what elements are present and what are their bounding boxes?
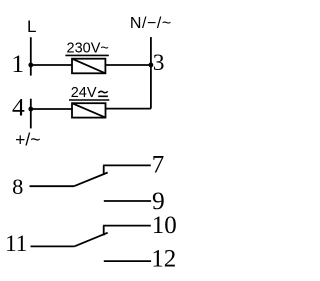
- coil U1 230V~ box: [72, 59, 105, 74]
- coil U2 24V AC/DC bar: [98, 95, 108, 97]
- svg-text:9: 9: [152, 186, 165, 215]
- coil U2 24V diagonal: [72, 103, 106, 117]
- svg-text:1: 1: [11, 49, 24, 78]
- wire terminal 4 stub: [30, 99, 32, 129]
- junction terminal 4: [28, 107, 33, 112]
- wire N vertical to coil 24V: [105, 108, 150, 110]
- relay contact arm 11: [74, 233, 107, 247]
- wire N vertical: [150, 37, 152, 109]
- wire terminal 9: [104, 200, 151, 202]
- svg-text:230V~: 230V~: [67, 41, 109, 57]
- wire terminal 7: [103, 164, 151, 166]
- coil U2 24V box: [72, 103, 106, 117]
- svg-text:7: 7: [152, 152, 165, 179]
- wire coil 24V to terminal 4: [31, 108, 72, 110]
- coil U1 230V~ diagonal: [72, 59, 105, 74]
- wire coil 230V to terminal 3: [105, 64, 150, 66]
- wire terminal 10: [103, 225, 151, 227]
- contact 10 tick: [103, 226, 105, 236]
- svg-text:4: 4: [12, 93, 25, 122]
- wire terminal 8 common: [30, 185, 75, 187]
- junction terminal 3: [149, 63, 154, 68]
- contact 7 tick: [103, 165, 105, 174]
- coil U2 24V label underline: [69, 99, 109, 101]
- svg-text:12: 12: [151, 246, 176, 273]
- coil U2 24V AC/DC tilde: [98, 91, 107, 93]
- wire L to terminal 1: [30, 37, 32, 75]
- svg-text:8: 8: [12, 174, 23, 199]
- junction terminal 1: [28, 63, 33, 68]
- coil U1 230V~ label underline: [65, 54, 108, 56]
- wire terminal 12: [104, 260, 151, 262]
- svg-text:+/~: +/~: [15, 129, 40, 149]
- svg-text:N/−/~: N/−/~: [130, 15, 172, 32]
- relay contact arm 8: [74, 173, 108, 187]
- wire terminal 11 common: [31, 245, 75, 247]
- svg-text:11: 11: [5, 231, 27, 256]
- svg-text:10: 10: [152, 212, 177, 239]
- wire terminal 1 to coil 230V: [31, 64, 72, 66]
- svg-text:L: L: [27, 17, 36, 36]
- svg-text:24V: 24V: [71, 85, 97, 101]
- svg-text:3: 3: [153, 50, 165, 76]
